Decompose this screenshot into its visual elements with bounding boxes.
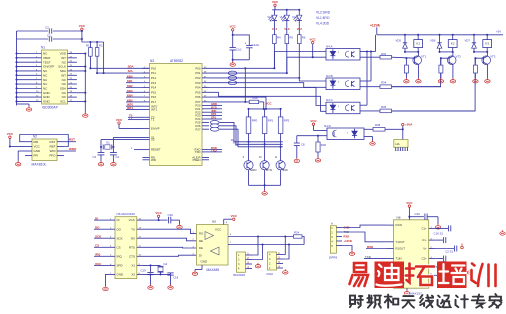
svg-text:+5VA: +5VA <box>405 123 413 127</box>
wire N2 top loop <box>20 135 69 147</box>
MCU pin WR <box>143 159 150 161</box>
transistor V9 display driver <box>280 147 282 161</box>
wire display row 1 <box>219 126 282 145</box>
svg-text:P05: P05 <box>195 90 201 94</box>
MCU pin P2.1 <box>202 108 209 110</box>
svg-text:C12A: C12A <box>252 43 260 47</box>
svg-text:EA/VP: EA/VP <box>151 127 160 131</box>
wire emitter unit 3 <box>486 64 488 78</box>
watermark char 5 xun <box>472 264 475 266</box>
svg-text:C2: C2 <box>45 25 49 29</box>
svg-text:P27: P27 <box>195 127 201 131</box>
svg-text:RESET: RESET <box>151 148 161 152</box>
MCU pin X2 <box>143 139 150 141</box>
svg-text:GND: GND <box>43 100 51 104</box>
N8 pin V+ <box>429 248 436 250</box>
svg-text:K2: K2 <box>451 42 455 46</box>
ground display drivers <box>264 185 266 190</box>
svg-text:SCL: SCL <box>60 100 66 104</box>
svg-text:+12VA: +12VA <box>370 23 381 27</box>
svg-text:C1: C1 <box>47 34 51 38</box>
svg-text:A: A <box>331 221 333 225</box>
capacitor C16 <box>436 227 448 229</box>
capacitor C8 <box>296 136 298 143</box>
wire R26 feed vertical <box>244 68 246 102</box>
resistor R5 <box>286 21 288 35</box>
MCU pin P0.5 <box>202 91 209 93</box>
watermark subtitle char 设 <box>438 296 451 308</box>
MCU pin P1.3 <box>143 82 150 84</box>
svg-text:C26: C26 <box>415 212 421 216</box>
MCU pin ALE/P <box>202 157 209 159</box>
ground under C3 <box>98 161 103 166</box>
ground under C8 <box>294 158 299 163</box>
resistor R24 <box>293 235 302 238</box>
svg-text:VCC: VCC <box>310 119 317 123</box>
capacitor C12A <box>233 35 250 45</box>
MCU pin P2.3 <box>202 115 209 117</box>
wire opto A emitter to R32 <box>360 56 380 58</box>
wire RESET <box>134 149 143 151</box>
wire LED rail <box>272 9 299 11</box>
svg-text:ISD300AP: ISD300AP <box>42 106 59 110</box>
svg-text:P15: P15 <box>151 90 157 94</box>
svg-text:CS: CS <box>117 245 121 249</box>
wire P07 to R26 <box>209 101 249 103</box>
transistor VT3 <box>486 52 488 56</box>
svg-text:R2: R2 <box>99 43 103 47</box>
node right bus of N1 <box>84 54 86 113</box>
watermark subtitle char 频 <box>367 295 380 308</box>
ground under C18 <box>168 284 173 289</box>
svg-text:GRD: GRD <box>250 168 256 172</box>
capacitor C4 <box>110 152 117 154</box>
watermark char 1 yi <box>354 263 366 272</box>
wire TX to MAX485 RO <box>144 229 197 233</box>
wire base feed unit 2 <box>392 58 450 86</box>
buffer triangles inside N5 <box>205 232 214 240</box>
svg-text:VCC: VCC <box>406 201 413 205</box>
jumper J1 <box>228 71 237 75</box>
MCU pin P1.7 <box>143 101 150 103</box>
power mark V+ area <box>461 244 464 249</box>
svg-text:VL2:GRD: VL2:GRD <box>316 10 331 14</box>
svg-text:N5: N5 <box>212 219 216 223</box>
diode VD6 <box>439 35 441 43</box>
MCU pin P2.6 <box>202 125 209 127</box>
svg-text:R38: R38 <box>375 123 381 127</box>
N8 pin R2IN <box>387 266 394 268</box>
power VCC N6 <box>144 219 159 221</box>
svg-text:R26: R26 <box>253 96 259 100</box>
svg-text:N4:D: N4:D <box>324 124 332 128</box>
N8 pin C2+ <box>429 258 436 260</box>
MCU pin T1 <box>143 119 150 121</box>
svg-text:AT89S52: AT89S52 <box>170 59 183 63</box>
svg-text:P01: P01 <box>195 71 201 75</box>
wire R34 run <box>392 86 441 88</box>
power +5VA at R38 <box>385 128 403 130</box>
N8 pin T2OUT <box>387 274 394 276</box>
wire R36 run <box>392 110 476 112</box>
wire drop to DG pin1 <box>283 237 285 255</box>
wire opto C collector <box>360 104 367 106</box>
svg-text:R32: R32 <box>381 52 387 56</box>
N1 pin row 5 <box>17 70 42 72</box>
N8 pin V- <box>429 274 436 276</box>
ground N8 bottom <box>406 288 408 290</box>
wire RTS to MAX485 DE <box>144 246 197 249</box>
wire left bus of N1 <box>16 31 18 104</box>
wire P05 to opto C pin2 <box>209 92 326 111</box>
power VCC top-left <box>81 28 83 30</box>
svg-text:K1: K1 <box>416 42 420 46</box>
wire display row 2 <box>219 129 282 147</box>
wire display row 0 <box>219 122 282 141</box>
jumper P2 row 0 <box>210 121 219 125</box>
MCU pin P0.0 <box>202 67 209 69</box>
svg-text:R36: R36 <box>381 105 387 109</box>
ground under C19 <box>148 284 153 289</box>
MCU pin TXD <box>202 151 209 153</box>
svg-text:G2: G2 <box>164 262 168 266</box>
power VCC for N2 <box>9 136 11 138</box>
chip N5 body MAX485 <box>197 225 229 266</box>
ground pulldown unit 1 <box>404 78 409 83</box>
resistor R6 <box>298 21 300 35</box>
wire emitter unit 1 <box>417 64 419 78</box>
transistor V7 display driver <box>244 161 253 170</box>
resistor R36 <box>380 109 392 113</box>
power VCC opto feed <box>312 41 314 43</box>
svg-text:C19: C19 <box>141 268 147 272</box>
capacitor C18 <box>170 273 172 275</box>
N8 pin R2OUT <box>387 283 394 285</box>
ground under R30 <box>317 152 319 158</box>
resistor R4 <box>273 21 275 35</box>
svg-text:VCC: VCC <box>129 218 136 222</box>
capacitor C1 <box>17 38 49 40</box>
N5 VCC pin 8 <box>223 219 225 224</box>
N1 pin row 11 <box>17 96 42 98</box>
MCU pin P1.0 <box>143 67 150 69</box>
svg-text:VL2: VL2 <box>292 15 297 19</box>
N6 pin row 6 <box>108 264 115 266</box>
MCU pin P0.1 <box>202 72 209 74</box>
svg-text:REF: REF <box>50 145 56 149</box>
crystal G1 circuit <box>113 136 142 138</box>
jumper P2 row 2 <box>210 127 219 131</box>
ground DPR9 shell <box>342 246 352 251</box>
svg-text:C2 S1: C2 S1 <box>445 250 453 254</box>
transistor V8 display driver <box>260 161 269 170</box>
MCU pin P1.6 <box>143 96 150 98</box>
svg-text:VCC: VCC <box>266 101 273 105</box>
svg-text:RX: RX <box>131 236 135 240</box>
svg-text:RE: RE <box>199 239 203 243</box>
chip N8 body MAX232 <box>394 220 429 288</box>
connector DG9 <box>268 252 277 270</box>
watermark char 3 tuo <box>407 264 410 283</box>
chip N6 body MAX3100 <box>115 217 137 279</box>
svg-text:P12: P12 <box>151 76 157 80</box>
power VCC N8 <box>408 205 410 207</box>
svg-text:C2+: C2+ <box>421 257 427 261</box>
wire bus B <box>228 244 304 246</box>
svg-text:TX: TX <box>131 227 135 231</box>
wire driver common rail <box>249 184 281 186</box>
svg-text:C16 S1: C16 S1 <box>434 232 444 236</box>
resistor R32 <box>380 55 392 59</box>
N1 pin row 4 <box>17 66 42 68</box>
wire P04 to opto C pin1 <box>209 88 326 106</box>
MCU pin P1.1 <box>143 72 150 74</box>
jumper J3 <box>228 81 237 85</box>
svg-text:T1: T1 <box>151 118 155 122</box>
N1 pin row 9 <box>17 87 42 89</box>
MCU pin INT0 <box>143 105 150 107</box>
ground emitter unit 1 <box>416 78 421 83</box>
ground near IDA <box>255 263 260 268</box>
wire RP2 bottom <box>280 134 282 147</box>
svg-text:VCC: VCC <box>155 211 162 215</box>
svg-text:INT1: INT1 <box>151 108 158 112</box>
svg-text:P11: P11 <box>151 71 156 75</box>
svg-text:+12VB: +12VB <box>344 239 352 243</box>
svg-text:BYD: BYD <box>266 168 272 172</box>
svg-text:X1: X1 <box>131 264 135 268</box>
capacitor C19 <box>150 265 152 272</box>
LED VL2 <box>298 10 300 15</box>
MCU pin T0 <box>143 116 150 118</box>
svg-text:K3: K3 <box>485 42 489 46</box>
svg-text:DPR9: DPR9 <box>329 256 338 260</box>
wire CTS to MAX485 DI <box>144 255 197 256</box>
svg-text:C8: C8 <box>301 143 305 147</box>
svg-text:N3: N3 <box>150 59 154 63</box>
N2 pin row 4 <box>25 155 32 157</box>
resistor base pulldown R33 <box>405 57 407 59</box>
resistor base pulldown R37 <box>474 57 476 59</box>
power VCC decoupling <box>232 29 234 31</box>
wire drop to IDA pin1 <box>252 237 258 256</box>
chip N3 body AT89S52 <box>150 64 203 166</box>
svg-text:R1IN: R1IN <box>396 223 402 227</box>
N8 pin C1- <box>429 239 436 241</box>
N1 pin row 7 <box>17 79 42 81</box>
resistor RP1 <box>264 109 266 117</box>
jumper J2 <box>228 76 237 80</box>
svg-text:VCC: VCC <box>215 227 222 231</box>
svg-text:SCK: SCK <box>117 236 123 240</box>
svg-text:P16: P16 <box>151 95 157 99</box>
wire resistor feed <box>82 41 104 43</box>
N5 GND pin 5 <box>201 265 203 270</box>
ground N6 GND pin <box>106 274 109 286</box>
MCU pin P0.2 <box>202 77 209 79</box>
LED VL4 <box>273 10 275 15</box>
ground decoupling <box>232 60 234 62</box>
wire opto A collector <box>360 51 376 53</box>
N6 pin row 4 <box>108 246 115 248</box>
svg-text:C26: C26 <box>168 213 174 217</box>
wire opto B collector <box>360 80 371 82</box>
svg-text:RXD: RXD <box>344 235 350 239</box>
svg-text:RST: RST <box>69 138 75 142</box>
svg-text:VCC: VCC <box>7 132 14 136</box>
watermark block 2 di <box>375 262 405 289</box>
capacitor C191 <box>436 258 443 260</box>
capacitor C12 <box>436 248 454 250</box>
watermark subtitle char 射 <box>350 296 363 308</box>
N8 pin C1+ <box>429 227 436 229</box>
svg-text:VCC: VCC <box>116 118 123 122</box>
MCU pin P2.5 <box>202 121 209 123</box>
wire DPR9 to N8 row1 <box>342 225 387 227</box>
svg-text:VD5: VD5 <box>396 39 402 43</box>
wire RP0 bottom <box>248 134 250 161</box>
svg-text:JDD: JDD <box>282 168 288 172</box>
MCU pin P1.5 <box>143 91 150 93</box>
svg-text:DG9: DG9 <box>267 272 274 276</box>
wire P03 to opto B pin2 <box>209 83 326 88</box>
wire P01 to opto A pin2 <box>209 57 326 73</box>
svg-text:C1-: C1- <box>422 238 427 242</box>
svg-text:+5V: +5V <box>496 30 501 34</box>
watermark subtitle char 计 <box>456 295 468 308</box>
svg-text:MAX810L: MAX810L <box>32 163 47 167</box>
N6 pin row 2 <box>108 228 115 230</box>
wire V- row <box>436 274 440 276</box>
watermark subtitle black text <box>350 294 502 308</box>
svg-text:MAX485: MAX485 <box>207 268 220 272</box>
wire collector junction unit 3 <box>474 51 487 53</box>
diode VD5 <box>404 35 406 43</box>
wire emitter unit 2 <box>452 64 454 78</box>
ground emitter unit 3 <box>485 78 490 83</box>
svg-text:X2: X2 <box>151 138 155 142</box>
MCU pin P2.2 <box>202 111 209 113</box>
svg-text:PFI: PFI <box>34 154 39 158</box>
wire collector junction unit 1 <box>405 51 418 53</box>
svg-text:GND: GND <box>34 149 42 153</box>
svg-text:PSEN: PSEN <box>193 158 201 162</box>
svg-text:R1OUT: R1OUT <box>396 247 406 251</box>
svg-text:TXD: TXD <box>195 150 201 154</box>
N1 pin row 10 <box>17 92 42 94</box>
watermark subtitle char 线 <box>420 295 433 308</box>
wire bus A <box>228 236 293 238</box>
wire collector junction unit 2 <box>440 51 453 53</box>
svg-text:T1IN: T1IN <box>396 257 402 261</box>
svg-text:WDI: WDI <box>50 149 56 153</box>
connector DPR9 <box>330 226 336 254</box>
ground under N1 left bus <box>16 104 18 106</box>
ground for N2 <box>17 151 19 161</box>
N2 pin row 2 <box>25 146 32 148</box>
svg-text:C3: C3 <box>93 155 97 159</box>
svg-text:X2: X2 <box>131 273 135 277</box>
svg-text:DI: DI <box>199 253 202 257</box>
resistor R2 <box>96 42 98 48</box>
watermark subtitle char 专 <box>472 295 484 308</box>
MCU pin P2.0 <box>202 104 209 106</box>
capacitor C26 at N6 <box>159 219 168 221</box>
diode VD7 <box>473 35 475 43</box>
svg-text:VCC: VCC <box>272 0 279 4</box>
svg-text:VL4: VL4 <box>267 15 272 19</box>
resistor base pulldown R35 <box>440 57 442 59</box>
svg-text:C18: C18 <box>173 275 179 279</box>
MCU pin EA/VP <box>143 127 150 129</box>
transistor VT2 <box>452 52 454 56</box>
svg-text:GND: GND <box>117 273 125 277</box>
N1 pin row 8 <box>17 83 42 85</box>
watermark subtitle char 家 <box>489 294 501 308</box>
resistor R26 <box>249 100 259 103</box>
LED VL3 <box>286 10 288 15</box>
MCU pin INT1 <box>143 108 150 110</box>
resistor R1 <box>89 42 91 48</box>
capacitor C10 <box>230 47 236 49</box>
svg-text:RP1: RP1 <box>268 118 274 122</box>
resistor R30 <box>317 136 319 142</box>
MCU pin P1.4 <box>143 87 150 89</box>
svg-text:VT1: VT1 <box>421 54 427 58</box>
N8 pin C2- <box>429 266 436 268</box>
MCU pin P1.2 <box>143 77 150 79</box>
svg-text:WR: WR <box>151 158 156 162</box>
N2 pin row 1 <box>25 141 32 143</box>
svg-text:RP0: RP0 <box>252 118 258 122</box>
svg-text:RP2: RP2 <box>284 118 290 122</box>
svg-text:VL4:JDD: VL4:JDD <box>316 21 330 25</box>
svg-text:C10: C10 <box>236 48 242 52</box>
svg-text:+: + <box>245 41 247 45</box>
svg-text:WDO: WDO <box>69 147 77 151</box>
wire SCL to MCU <box>96 56 98 73</box>
ground emitter unit 2 <box>450 78 455 83</box>
svg-text:RTS: RTS <box>129 245 135 249</box>
jumper P2 row 1 <box>210 124 219 128</box>
wire base feed unit 1 <box>392 57 415 58</box>
svg-text:VT2: VT2 <box>456 54 462 58</box>
ground under C4 <box>111 161 116 166</box>
power VCC at EA pin <box>118 122 120 124</box>
svg-text:N4:B: N4:B <box>326 74 333 78</box>
wire opto B emitter to R34 <box>360 86 380 88</box>
MCU pin PSEN <box>202 159 209 161</box>
chip N2 body MAX810L <box>32 139 57 161</box>
ground under N1 right bus <box>83 112 88 117</box>
watermark white halo <box>350 263 496 286</box>
ground pulldown unit 2 <box>438 78 443 83</box>
MCU pin P2.4 <box>202 118 209 120</box>
svg-text:SDA: SDA <box>128 64 134 68</box>
N6 pin row 3 <box>108 237 115 239</box>
wire drop to DG pin2 <box>283 245 289 260</box>
MCU pin P0.6 <box>202 96 209 98</box>
watermark subtitle char 和 <box>385 295 398 308</box>
MCU pin P0.4 <box>202 87 209 89</box>
svg-text:P02: P02 <box>195 76 201 80</box>
svg-text:P00: P00 <box>195 66 201 70</box>
svg-text:PFO: PFO <box>49 154 56 158</box>
capacitor C3 <box>98 152 105 154</box>
N8 pin R1IN <box>387 224 394 226</box>
ground pulldown unit 3 <box>473 78 478 83</box>
ground after C26 <box>179 220 181 224</box>
